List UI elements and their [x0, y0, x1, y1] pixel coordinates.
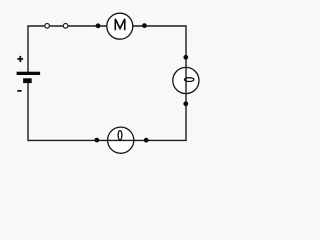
- motor U1 label M: [115, 19, 124, 30]
- junction node below right lamp: [183, 101, 188, 106]
- junction node right of motor: [142, 23, 147, 28]
- wire left lower segment (bottom-left corner up to battery - terminal): [27, 79, 29, 141]
- switch S1 contact circle left: [45, 24, 50, 29]
- wire right segment: [185, 25, 187, 140]
- battery B1: [17, 56, 40, 92]
- wire top segment: [27, 25, 186, 27]
- lamp L1 filament loop: [185, 78, 194, 82]
- battery long positive plate: [17, 72, 40, 75]
- gap between battery plates: [26, 75, 30, 79]
- lamp L2 (bottom) circle: [108, 127, 134, 153]
- junction node above right lamp: [183, 55, 188, 60]
- lamp L1 (right) circle: [173, 67, 199, 93]
- battery - label: [17, 90, 22, 92]
- motor U1 circle: [107, 13, 133, 39]
- battery short negative plate: [23, 78, 32, 83]
- wire bottom segment: [28, 139, 187, 141]
- lamp L2 wire through circle: [108, 139, 134, 141]
- switch S1 contact circle right: [63, 24, 68, 29]
- junction node left of motor: [96, 23, 101, 28]
- wire left upper segment (battery + terminal up to top-left corner): [27, 26, 29, 73]
- lamp L2 filament loop: [118, 131, 122, 140]
- battery + label: [17, 58, 23, 60]
- junction node left of bottom lamp: [94, 138, 99, 143]
- junction node right of bottom lamp: [144, 138, 149, 143]
- lamp L1 wire through circle: [185, 67, 187, 93]
